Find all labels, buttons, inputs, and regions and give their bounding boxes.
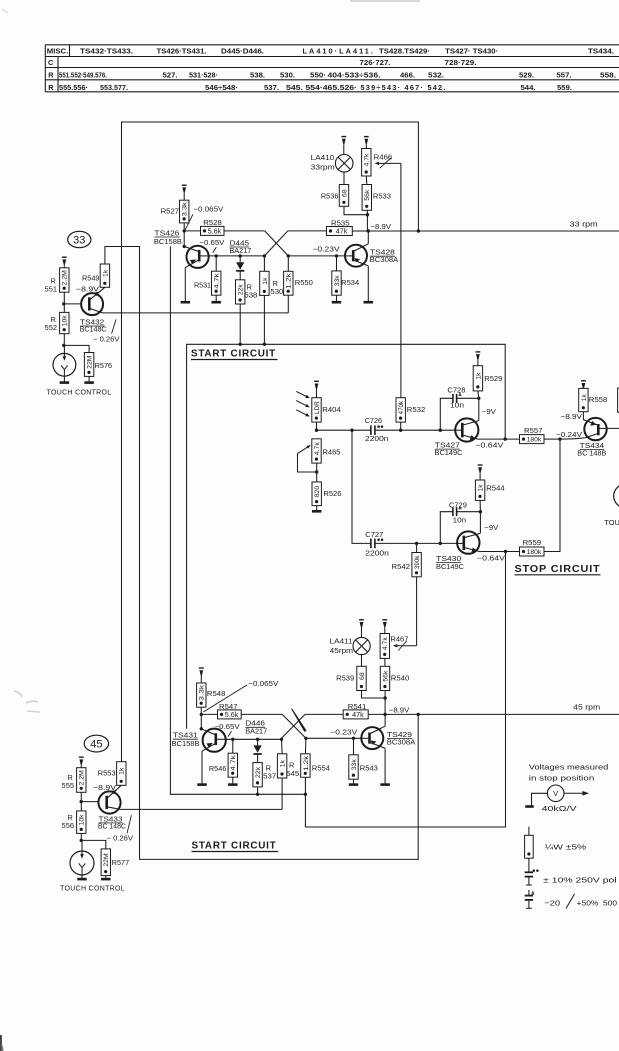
svg-text:R527: R527 <box>161 207 180 216</box>
svg-text:STOP CIRCUIT: STOP CIRCUIT <box>515 563 601 575</box>
svg-text:466.: 466. <box>400 70 415 79</box>
svg-text:R541: R541 <box>348 702 367 711</box>
wire bus up to R550 <box>287 295 289 313</box>
svg-text:−0.64V: −0.64V <box>477 553 505 562</box>
resistor R527 <box>161 200 189 223</box>
svg-text:R542: R542 <box>392 562 411 571</box>
ground under R531 <box>211 295 221 302</box>
svg-text:531·528·: 531·528· <box>189 70 218 79</box>
power rail symbol above R467 <box>382 620 387 634</box>
svg-text:R548: R548 <box>207 689 226 698</box>
wire R467 to R540 <box>384 658 386 666</box>
svg-text:56k: 56k <box>382 670 389 682</box>
svg-text:LA410: LA410 <box>311 153 335 162</box>
power rail symbol above LDR <box>314 381 319 397</box>
transistor TS433 <box>98 785 121 813</box>
svg-text:555: 555 <box>62 781 75 790</box>
svg-text:in stop position: in stop position <box>529 774 595 783</box>
label 33 circle <box>68 231 91 247</box>
node supply link 33 <box>417 229 420 232</box>
svg-text:1k: 1k <box>119 767 126 775</box>
transistor TS430 <box>457 531 480 553</box>
wire C726 node down to C727 <box>352 430 371 543</box>
svg-text:R532: R532 <box>407 405 426 414</box>
svg-text:R550: R550 <box>295 278 313 287</box>
wire TS428 emitter down <box>367 266 369 301</box>
transistor TS432 <box>81 287 105 315</box>
node -8.9V 33 <box>367 229 370 232</box>
resistor R550 <box>284 256 313 295</box>
svg-text:R536: R536 <box>321 191 339 200</box>
svg-text:550·: 550· <box>310 70 326 79</box>
wire -0.23V line 33 <box>288 255 345 257</box>
svg-text:R547: R547 <box>219 702 238 711</box>
wire R542 down to R467 wiper <box>416 577 418 646</box>
svg-text:470k: 470k <box>398 400 405 414</box>
svg-text:R528: R528 <box>203 218 222 227</box>
resistor R536 <box>321 185 349 207</box>
svg-text:LA411: LA411 <box>330 637 353 646</box>
svg-text:START CIRCUIT: START CIRCUIT <box>192 840 277 852</box>
label LA410 33rpm <box>311 153 335 171</box>
node R465 wiper join <box>315 470 318 473</box>
diode D445 <box>236 256 244 280</box>
svg-text:MISC.: MISC. <box>47 46 69 55</box>
node R542 top <box>415 542 418 545</box>
svg-text:546÷548·: 546÷548· <box>205 83 238 92</box>
wire R466 wiper down to R532 <box>400 163 402 397</box>
svg-text:22k: 22k <box>255 766 262 778</box>
label START CIRCUIT 45 <box>192 840 279 852</box>
resistor R554 <box>301 738 330 777</box>
svg-text:33k: 33k <box>334 275 341 287</box>
resistor R535 <box>327 219 353 236</box>
svg-text:R540: R540 <box>391 674 410 683</box>
power rail symbol above LA411 <box>359 620 364 638</box>
svg-text:− 0.26V: − 0.26V <box>107 833 134 842</box>
svg-text:TS427· TS430·: TS427· TS430· <box>445 46 498 55</box>
svg-text:−0.065V: −0.065V <box>193 204 223 213</box>
lamp LA410 <box>335 155 353 173</box>
capacitor C729 <box>440 500 480 543</box>
ground under R534 <box>332 295 342 302</box>
svg-text:R553: R553 <box>98 769 116 778</box>
svg-text:R549: R549 <box>82 273 100 282</box>
svg-text:R526: R526 <box>323 489 341 498</box>
svg-text:68: 68 <box>341 189 348 197</box>
resistor R548 <box>197 683 226 707</box>
svg-text:33rpm: 33rpm <box>311 162 335 171</box>
switch slash mark 45 <box>291 709 307 732</box>
svg-text:R539: R539 <box>336 674 354 683</box>
svg-text:R466: R466 <box>374 153 393 162</box>
wire node down to TS426 base <box>183 231 185 247</box>
svg-text:BC 148B: BC 148B <box>577 449 606 458</box>
node C729 collector side <box>479 510 482 513</box>
svg-text:R531: R531 <box>194 281 211 290</box>
svg-text:45: 45 <box>90 739 102 751</box>
svg-text:−9V: −9V <box>482 407 496 416</box>
svg-text:558.: 558. <box>600 70 616 79</box>
resistor R546 <box>209 739 238 777</box>
svg-text:45 rpm: 45 rpm <box>573 702 600 711</box>
svg-text:3.3k: 3.3k <box>199 684 206 700</box>
svg-text:551.552·549.576.: 551.552·549.576. <box>59 70 107 79</box>
node D445 <box>239 254 242 257</box>
svg-text:R533: R533 <box>373 191 391 200</box>
svg-text:10k: 10k <box>62 315 69 327</box>
header table frame <box>45 45 619 92</box>
touch plate symbol 45 <box>70 840 94 878</box>
node R530 top <box>263 254 266 257</box>
svg-text:40kΩ/V: 40kΩ/V <box>542 804 578 813</box>
node R538 start bus <box>239 343 242 346</box>
node touch divider 33 <box>62 344 65 347</box>
svg-text:−0.64V: −0.64V <box>475 441 503 450</box>
wire R551 to base node <box>63 292 65 304</box>
svg-text:BC149C: BC149C <box>435 448 464 457</box>
svg-text:C: C <box>48 58 54 67</box>
svg-text:33: 33 <box>73 235 85 247</box>
node R554 link bus <box>304 793 307 796</box>
power rail symbol above R466 <box>364 137 369 149</box>
svg-text:820: 820 <box>314 486 321 498</box>
svg-text:BC 148C: BC 148C <box>98 822 127 831</box>
capacitor C728 <box>440 386 479 431</box>
ground under TS429 <box>380 783 390 786</box>
svg-text:1.2k: 1.2k <box>286 273 293 289</box>
svg-text:R577: R577 <box>112 858 130 867</box>
node LDR C726 <box>315 429 318 432</box>
node C729 base side <box>439 542 442 545</box>
svg-text:R543: R543 <box>360 763 378 772</box>
node R531 <box>215 254 218 257</box>
resistor R531 <box>194 256 221 295</box>
svg-text:5.6k: 5.6k <box>225 710 239 719</box>
wire R538 down to start bus <box>239 304 241 344</box>
node R548 R547 <box>200 713 203 716</box>
svg-text:−8.9V: −8.9V <box>389 706 410 715</box>
wire bus up to R545 <box>281 778 283 809</box>
svg-text:4.7k: 4.7k <box>214 272 221 288</box>
wire R555 to base node <box>80 792 82 801</box>
node R534 <box>335 254 338 257</box>
resistor R528 <box>184 218 224 235</box>
svg-text:−0.24V: −0.24V <box>556 430 582 439</box>
wire TS431 collector line <box>226 738 282 740</box>
resistor R543 <box>349 738 378 779</box>
wire R552 to lower node <box>63 334 65 346</box>
svg-text:R529: R529 <box>484 374 502 383</box>
ground under TS428 <box>364 301 374 304</box>
wire base node to TS433 <box>81 801 99 803</box>
wire TS431 base to R557 node link <box>187 344 506 729</box>
svg-text:C727: C727 <box>365 530 383 539</box>
svg-text:56k: 56k <box>364 189 371 201</box>
svg-text:TOUCH CONTROL: TOUCH CONTROL <box>60 884 125 893</box>
svg-text:545: 545 <box>286 769 299 778</box>
svg-text:R558: R558 <box>589 395 608 404</box>
resistor R530 <box>260 256 284 296</box>
label TS432 BC148C <box>80 317 120 343</box>
wire C726 to TS427 base <box>375 429 455 431</box>
label TS430 BC149C <box>436 554 465 571</box>
wire C727 to TS430 base <box>375 542 457 544</box>
wire R541 line <box>305 713 343 715</box>
wire LDR to node <box>316 422 318 430</box>
svg-text:10n: 10n <box>453 515 467 524</box>
wire -8.9V top rail <box>122 122 419 762</box>
svg-text:728·729.: 728·729. <box>445 58 477 67</box>
wire R577 to ground <box>105 876 107 878</box>
svg-text:22M: 22M <box>87 355 94 369</box>
label TS431 BC158B <box>172 731 200 749</box>
svg-text:538.: 538. <box>250 70 265 79</box>
wire R535 line <box>288 230 327 232</box>
legend capacitor electrolytic <box>525 890 534 908</box>
resistor R537 <box>253 763 276 787</box>
wire node down to TS427 collector <box>478 398 480 420</box>
resistor R526 <box>312 482 341 506</box>
svg-text:559.: 559. <box>557 83 572 92</box>
wire R576 to ground <box>88 376 90 381</box>
svg-text:−0.65V: −0.65V <box>215 722 240 731</box>
svg-text:V: V <box>553 789 558 798</box>
svg-text:R576: R576 <box>95 361 113 370</box>
wire R548 to node <box>200 707 202 714</box>
svg-text:C728: C728 <box>447 386 465 395</box>
svg-text:BA217: BA217 <box>245 727 267 736</box>
label D445 BA217 <box>229 238 251 255</box>
svg-text:R535: R535 <box>331 219 350 228</box>
node TS431 base <box>200 727 203 730</box>
legend voltmeter <box>525 785 589 807</box>
svg-text:4.7k: 4.7k <box>364 153 371 166</box>
svg-text:47k: 47k <box>352 710 364 719</box>
ground under R576 <box>84 381 94 384</box>
wire R557 to -0.24V node <box>544 438 560 440</box>
svg-text:545. 554·465.526·: 545. 554·465.526· <box>286 83 357 92</box>
svg-text:C726: C726 <box>365 416 383 425</box>
partial resistor right edge <box>618 388 619 412</box>
variable resistor R466 <box>362 149 401 177</box>
node R532 bottom <box>399 429 402 432</box>
transistor TS426 <box>184 246 209 301</box>
wire R554 to R559 node link <box>305 552 505 828</box>
power rail symbol above R544 <box>478 465 483 480</box>
node R559 left <box>504 550 507 553</box>
svg-text:539÷543· 467· 542.: 539÷543· 467· 542. <box>361 83 447 92</box>
svg-text:R: R <box>48 83 54 92</box>
svg-text:BC308A: BC308A <box>387 738 416 747</box>
resistor R538 <box>236 280 258 304</box>
svg-text:Voltages measured: Voltages measured <box>529 762 609 771</box>
node R545 top <box>280 738 283 741</box>
svg-text:33k: 33k <box>351 759 358 771</box>
legend text voltages measured <box>529 762 609 782</box>
wire lamp to R539 <box>361 655 363 667</box>
svg-text:2.2M: 2.2M <box>62 270 69 285</box>
resistor R551 <box>45 268 69 294</box>
resistor R541 <box>343 702 368 719</box>
node TS426 base <box>183 245 186 248</box>
variable resistor R467 <box>380 634 417 659</box>
node supply link 45 <box>417 713 420 716</box>
faint corner mark <box>2 9 8 13</box>
label -0.065V 45 with leader <box>203 679 278 712</box>
label START CIRCUIT 33 <box>191 348 278 360</box>
node R543 <box>352 737 355 740</box>
node C728 collector side <box>477 397 480 400</box>
wire R539 to R540 column <box>362 691 386 699</box>
svg-text:¼W ±5%: ¼W ±5% <box>545 842 587 851</box>
wire TS430 emitter line <box>480 551 519 553</box>
svg-text:3.3k: 3.3k <box>182 202 189 217</box>
wire TS428 collector up <box>367 231 369 244</box>
ground under R577 <box>101 878 111 881</box>
svg-text:1k: 1k <box>478 484 485 492</box>
svg-text:− 0.26V: − 0.26V <box>93 335 120 344</box>
svg-text:BC158B: BC158B <box>154 237 182 246</box>
node R527 R528 <box>183 229 186 232</box>
resistor R549 <box>82 264 110 287</box>
light arrows at LDR <box>296 391 310 416</box>
svg-text:R: R <box>48 71 54 80</box>
svg-text:530.: 530. <box>280 70 295 79</box>
svg-text:± 10% 250V pol: ± 10% 250V pol <box>543 875 617 884</box>
ground under R526 <box>312 506 322 512</box>
node link down <box>350 429 353 432</box>
svg-text:LA410·LA411.: LA410·LA411. <box>303 46 375 55</box>
svg-text:180k: 180k <box>527 549 542 556</box>
table row C <box>48 58 477 67</box>
svg-text:START CIRCUIT: START CIRCUIT <box>191 348 276 360</box>
resistor R542 <box>392 543 422 576</box>
power rail symbol above R551 <box>62 257 67 268</box>
label LA411 45rpm <box>330 637 354 656</box>
svg-text:537.: 537. <box>264 83 279 92</box>
svg-text:537: 537 <box>263 772 276 781</box>
wire R528 to crossing <box>224 230 265 232</box>
svg-text:2200n: 2200n <box>365 434 389 443</box>
label D446 BA217 <box>245 719 267 736</box>
label TS427 BC149C <box>435 441 464 458</box>
svg-text:−8.9V: −8.9V <box>93 783 116 792</box>
svg-text:−0.65V: −0.65V <box>199 238 224 247</box>
svg-text:10n: 10n <box>450 401 464 410</box>
bus TS433 collector 45 <box>120 808 282 810</box>
svg-text:529.: 529. <box>519 70 534 79</box>
svg-text:556: 556 <box>62 821 75 830</box>
resistor R544 <box>475 480 504 512</box>
svg-text:TS432·TS433.: TS432·TS433. <box>80 46 133 55</box>
node D446 <box>256 738 259 741</box>
svg-text:TOUCH: TOUCH <box>604 518 619 527</box>
svg-text:4.7k: 4.7k <box>382 637 389 650</box>
lamp LA411 <box>353 637 370 654</box>
svg-text:BC148C: BC148C <box>80 325 108 334</box>
svg-text:538: 538 <box>244 291 257 300</box>
wire TS426 base to R559 node link <box>170 246 305 794</box>
label -0.065V 33 with leader <box>185 204 223 229</box>
capacitor C726 <box>365 416 389 443</box>
resistor R529 <box>473 366 502 399</box>
node R557 left <box>504 437 507 440</box>
svg-text:−0.23V: −0.23V <box>313 245 340 254</box>
label TS433 BC148C <box>98 814 133 842</box>
power rail symbol above R548 <box>199 668 204 683</box>
label -0.65V 33 with leader <box>199 238 224 253</box>
transistor TS427 <box>455 418 479 441</box>
wire R527 to node <box>183 223 185 231</box>
wire R465 wiper loop <box>298 454 317 472</box>
svg-text:68: 68 <box>359 672 366 680</box>
svg-text:1k: 1k <box>102 269 109 277</box>
wire node down to TS430 collector <box>479 512 481 534</box>
label -0.65V 45 with leader <box>215 722 240 737</box>
svg-text:45rpm: 45rpm <box>330 646 354 655</box>
svg-text:−8.9V: −8.9V <box>371 222 392 231</box>
svg-text:R465: R465 <box>323 447 341 456</box>
resistor R547 <box>201 702 241 719</box>
svg-text:555.556·: 555.556· <box>59 83 88 92</box>
resistor R557 <box>520 426 545 444</box>
label TS426 BC158B <box>154 228 182 246</box>
resistor R558 <box>579 388 608 411</box>
label STOP CIRCUIT <box>515 563 601 575</box>
wire base node to TS432 <box>64 303 82 305</box>
partial touch circle right edge <box>614 484 619 508</box>
resistor R545 <box>277 739 299 778</box>
label TS428 BC308A <box>370 248 399 265</box>
svg-text:1k: 1k <box>475 372 482 380</box>
wire R465 bottom <box>316 463 318 482</box>
svg-text:TS426·TS431.: TS426·TS431. <box>157 46 207 55</box>
svg-text:BC158B: BC158B <box>172 739 200 748</box>
svg-text:10k: 10k <box>79 814 86 826</box>
svg-text:−20: −20 <box>544 898 560 907</box>
svg-text:557.: 557. <box>557 70 572 79</box>
svg-text:1.2k: 1.2k <box>303 755 310 771</box>
svg-text:LDR: LDR <box>314 401 321 414</box>
svg-text:180k: 180k <box>527 437 542 444</box>
resistor R539 <box>336 666 366 690</box>
node C728 base side <box>439 429 442 432</box>
svg-text:−8.9V: −8.9V <box>76 284 99 293</box>
svg-text:−9V: −9V <box>484 523 498 532</box>
svg-text:BC149C: BC149C <box>436 562 465 571</box>
svg-text:R404: R404 <box>322 405 341 414</box>
wire R537 down to link bus <box>257 787 259 794</box>
resistor R559 <box>520 538 545 556</box>
svg-text:22M: 22M <box>103 853 110 867</box>
legend capacitor 10 percent <box>525 867 539 885</box>
LDR R404 <box>312 398 341 422</box>
node R537 link bus <box>256 793 259 796</box>
svg-text:C729: C729 <box>449 500 467 509</box>
transistor TS434 <box>574 418 619 440</box>
node R536 R533 join <box>366 213 369 216</box>
node -0.24V <box>558 437 561 440</box>
wire R549 supply link <box>105 247 418 860</box>
resistor R556 <box>62 802 86 834</box>
wire R559 to -0.24V column <box>544 439 560 551</box>
svg-text:R557: R557 <box>524 426 543 435</box>
wire node to R576 <box>64 345 89 352</box>
svg-text:530: 530 <box>270 287 283 296</box>
diode D446 <box>254 739 262 762</box>
node R554 top <box>304 737 307 740</box>
